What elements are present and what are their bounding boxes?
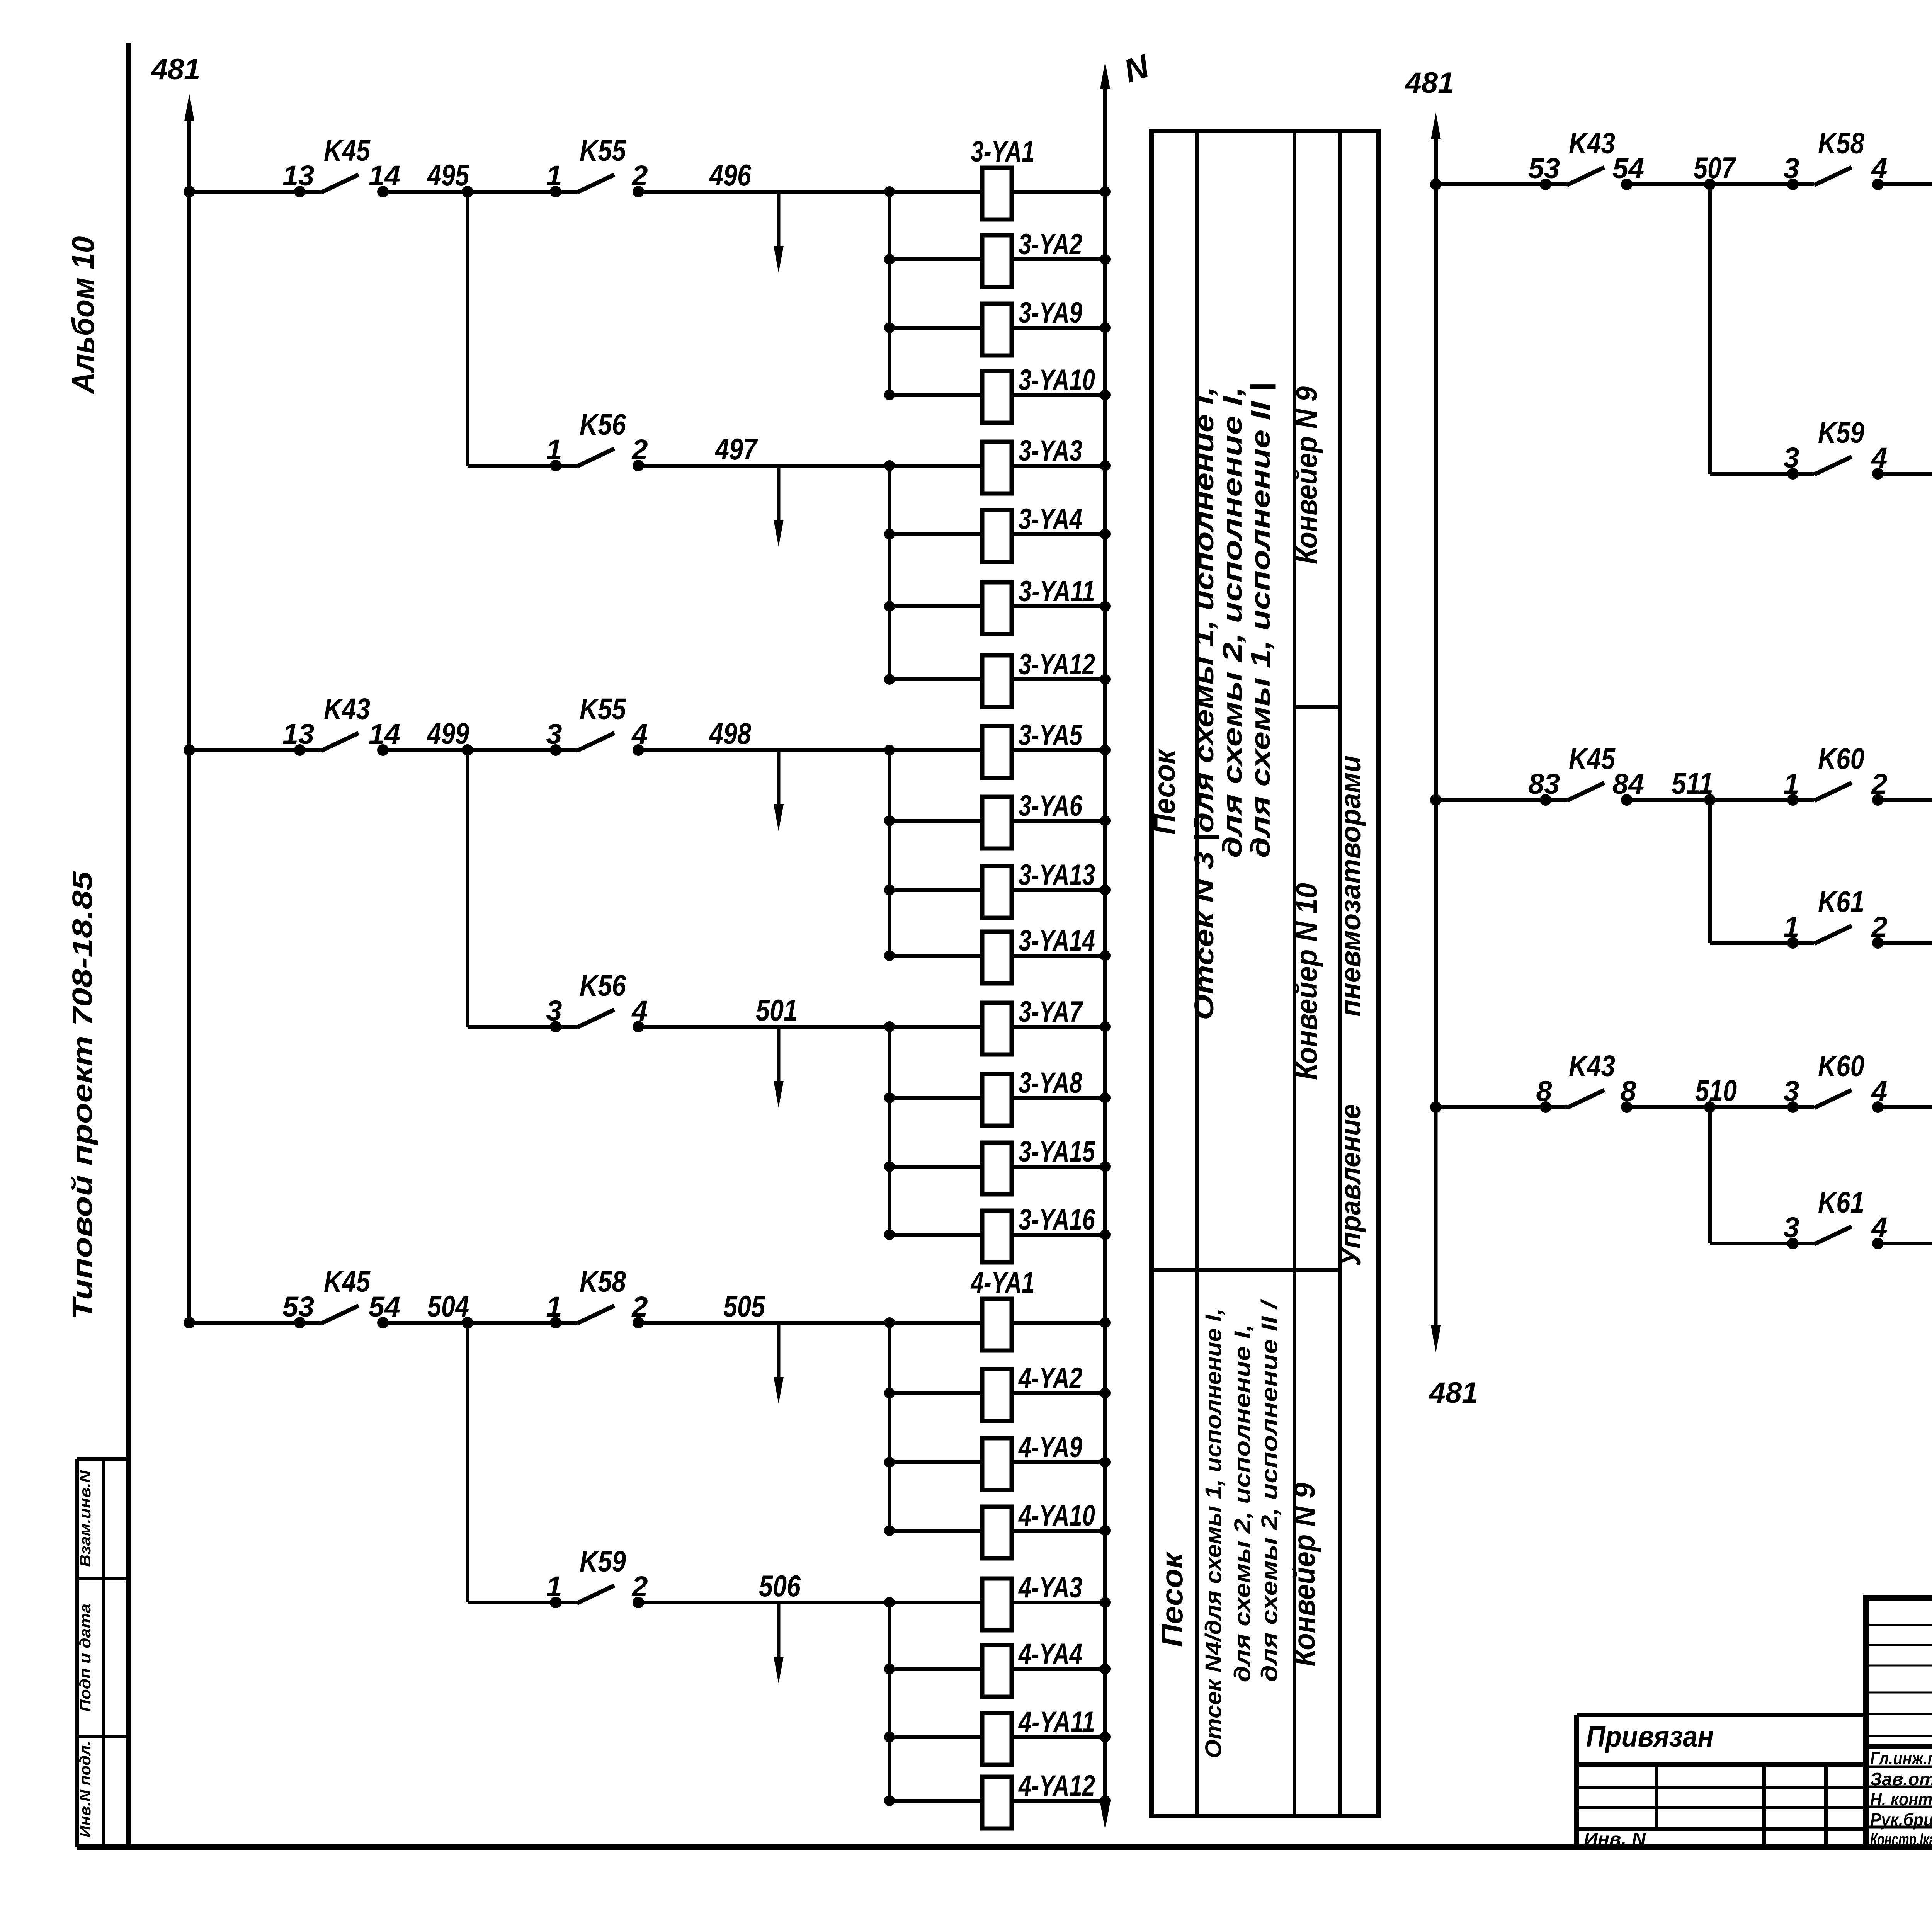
wire group bus at x2302 rows 4-YA1-4-YA10 (888, 1323, 891, 1531)
coil 3-YA13 (982, 859, 1095, 918)
svg-text:3-YA1: 3-YA1 (971, 135, 1035, 168)
contact K43 pins 53-54 (1528, 127, 1644, 190)
svg-text:8: 8 (1536, 1075, 1552, 1107)
svg-text:1: 1 (546, 434, 562, 466)
svg-text:3: 3 (546, 995, 562, 1027)
svg-text:506: 506 (759, 1569, 801, 1603)
contact K55 pins 1-2 (546, 134, 648, 197)
svg-text:Рук.бриг.: Рук.бриг. (1870, 1810, 1932, 1830)
svg-text:481: 481 (1405, 66, 1454, 99)
coil 3-YA14 (982, 924, 1095, 983)
arrow continuation under 498 (774, 752, 784, 831)
wire row 3-YA9 (884, 322, 1111, 333)
svg-text:K43: K43 (1569, 127, 1615, 160)
svg-text:K43: K43 (1569, 1050, 1615, 1083)
wire sub-rung 513 (1710, 800, 1932, 943)
svg-text:84: 84 (1612, 768, 1644, 800)
svg-text:2: 2 (1871, 768, 1887, 800)
svg-text:3: 3 (1783, 1075, 1799, 1107)
svg-text:Зав.отд: Зав.отд (1870, 1769, 1932, 1789)
svg-text:3-YA12: 3-YA12 (1019, 648, 1095, 681)
svg-text:1: 1 (546, 1570, 562, 1602)
coil 3-YA12 (982, 648, 1095, 707)
svg-text:53: 53 (1528, 152, 1560, 184)
svg-text:496: 496 (709, 158, 751, 192)
svg-text:Гл.инж.пр: Гл.инж.пр (1870, 1748, 1932, 1768)
wire row 4-YA11 (884, 1732, 1111, 1742)
arrow continuation under 497 (774, 468, 784, 547)
svg-text:54: 54 (1612, 152, 1644, 184)
contact K45 pins 53-54 (282, 1265, 400, 1328)
svg-text:4-YA12: 4-YA12 (1018, 1769, 1095, 1802)
svg-text:Типовой проект 708-18.85: Типовой проект 708-18.85 (67, 871, 98, 1320)
wire row 3-YA16 (884, 1229, 1111, 1240)
wire rung 507/508 (1430, 151, 1932, 190)
svg-text:3-YA9: 3-YA9 (1019, 296, 1082, 329)
svg-text:K58: K58 (1818, 127, 1864, 160)
svg-text:54: 54 (369, 1291, 400, 1323)
svg-text:14: 14 (369, 160, 400, 192)
svg-text:K61: K61 (1818, 1186, 1864, 1219)
svg-text:511: 511 (1672, 766, 1713, 800)
svg-text:K60: K60 (1818, 742, 1864, 776)
wire group bus at x2302 rows 4-YA3-4-YA12 (888, 1602, 891, 1801)
svg-text:K45: K45 (324, 1265, 371, 1298)
svg-text:Н. контр.: Н. контр. (1870, 1789, 1932, 1809)
contact K56 pins 3-4 (546, 969, 648, 1032)
wire rung 510/515 (1430, 1073, 1932, 1113)
coil 4-YA1 (970, 1266, 1035, 1351)
svg-text:4: 4 (631, 718, 648, 750)
wire rung 504/505 (184, 1289, 889, 1328)
svg-text:Привязан: Привязан (1586, 1720, 1714, 1753)
wire row 3-YA15 (884, 1161, 1111, 1172)
svg-text:2: 2 (631, 434, 648, 466)
node N left coil bus (1100, 48, 1154, 1830)
svg-text:Песок: Песок (1155, 1551, 1189, 1647)
svg-text:4: 4 (1871, 1075, 1887, 1107)
svg-text:1: 1 (546, 160, 562, 192)
svg-text:3-YA6: 3-YA6 (1019, 789, 1083, 822)
svg-text:495: 495 (427, 158, 469, 192)
contact K61 pins 3-4 (1783, 1186, 1887, 1249)
svg-text:3-YA8: 3-YA8 (1019, 1067, 1083, 1099)
svg-text:3-YA16: 3-YA16 (1019, 1203, 1095, 1236)
wire group bus at x2302 rows 3-YA7-3-YA16 (888, 1027, 891, 1235)
svg-text:1: 1 (1783, 911, 1799, 943)
svg-text:2: 2 (631, 160, 648, 192)
contact K60 pins 3-4 (1783, 1050, 1887, 1113)
wire row 4-YA4 (884, 1664, 1111, 1674)
svg-text:3-YA11: 3-YA11 (1019, 575, 1095, 608)
svg-text:510: 510 (1695, 1073, 1737, 1107)
wire sub-rung 509 (1710, 184, 1932, 474)
svg-text:499: 499 (427, 716, 469, 750)
coil 4-YA3 (982, 1571, 1082, 1630)
svg-text:K60: K60 (1818, 1050, 1864, 1083)
arrow continuation under 505 (774, 1325, 784, 1404)
wire row 3-YA11 (884, 601, 1111, 612)
svg-text:Конвейер N 10: Конвейер N 10 (1289, 883, 1323, 1080)
coil 4-YA11 (982, 1706, 1095, 1765)
svg-text:14: 14 (369, 718, 400, 750)
svg-text:3-YA3: 3-YA3 (1019, 434, 1082, 467)
svg-text:498: 498 (709, 716, 751, 750)
svg-text:1: 1 (1783, 768, 1799, 800)
coil 3-YA4 (982, 503, 1082, 562)
wire row 4-YA10 (884, 1525, 1111, 1536)
svg-text:4: 4 (1871, 152, 1887, 184)
contact K60 pins 1-2 (1783, 742, 1887, 806)
wire sub-rung 501 (468, 750, 889, 1027)
svg-text:для схемы 2, исполнение II /: для схемы 2, исполнение II / (1257, 1298, 1282, 1682)
contact K43 pins 8-8 (1536, 1050, 1636, 1113)
svg-text:4: 4 (631, 995, 648, 1027)
coil 3-YA7 (982, 995, 1083, 1055)
wire row 4-YA1 (884, 1317, 1111, 1328)
svg-text:3: 3 (1783, 152, 1799, 184)
svg-text:K55: K55 (580, 692, 626, 726)
svg-text:2: 2 (631, 1570, 648, 1602)
svg-text:для схемы 2, исполнение I,: для схемы 2, исполнение I, (1230, 1324, 1255, 1682)
svg-text:Управление: Управление (1335, 1104, 1366, 1266)
arrow continuation under 506 (774, 1604, 784, 1684)
svg-text:3-YA10: 3-YA10 (1019, 364, 1095, 396)
svg-text:4-YA4: 4-YA4 (1018, 1638, 1082, 1670)
margin text Типовой проект 708-18.85 (67, 871, 98, 1320)
coil 4-YA9 (982, 1431, 1082, 1490)
wire row 3-YA1 (884, 186, 1111, 197)
svg-text:Отсек N 3 |для схемы 1, ис: Отсек N 3 |для схемы 1, исполнение I, (1189, 386, 1219, 1020)
svg-text:3: 3 (1783, 442, 1799, 474)
svg-text:3-YA5: 3-YA5 (1019, 719, 1083, 752)
title block texts (1870, 1614, 1932, 1851)
coil 3-YA16 (982, 1203, 1095, 1262)
svg-text:53: 53 (282, 1291, 314, 1323)
svg-text:3: 3 (1783, 1211, 1799, 1243)
svg-text:K59: K59 (1818, 416, 1864, 449)
svg-text:3-YA15: 3-YA15 (1019, 1135, 1095, 1168)
contact K45 pins 83-84 (1528, 742, 1644, 806)
svg-text:4-YA3: 4-YA3 (1018, 1571, 1082, 1604)
svg-text:13: 13 (282, 718, 314, 750)
wire row 4-YA2 (884, 1388, 1111, 1398)
wire row 4-YA12 (884, 1795, 1111, 1806)
wire sub-rung 497 (468, 192, 889, 466)
svg-text:4: 4 (1871, 1211, 1887, 1243)
coil 4-YA10 (982, 1499, 1095, 1558)
svg-text:K58: K58 (580, 1265, 626, 1298)
svg-text:для схемы 2, исполнение I,: для схемы 2, исполнение I, (1217, 386, 1247, 858)
wire sub-rung 506 (468, 1323, 889, 1603)
svg-text:Альбом 10: Альбом 10 (66, 236, 101, 395)
svg-text:Конвейер N 9: Конвейер N 9 (1287, 1483, 1321, 1667)
coil 3-YA15 (982, 1135, 1095, 1194)
svg-text:505: 505 (723, 1289, 765, 1323)
wire row 3-YA13 (884, 885, 1111, 895)
contact K58 pins 1-2 (546, 1265, 648, 1328)
bus 481 left (151, 53, 201, 1323)
svg-text:для схемы 1, исполнение II |: для схемы 1, исполнение II | (1245, 383, 1276, 858)
svg-text:504: 504 (427, 1289, 469, 1323)
svg-text:507: 507 (1694, 151, 1736, 185)
svg-text:K56: K56 (580, 408, 626, 441)
wire row 3-YA14 (884, 950, 1111, 961)
bottom-left stamp table (77, 1459, 128, 1847)
svg-text:4: 4 (1871, 442, 1887, 474)
svg-text:1: 1 (546, 1291, 562, 1323)
svg-text:Инв. N: Инв. N (1584, 1829, 1646, 1849)
wire row 3-YA4 (884, 529, 1111, 539)
svg-text:K61: K61 (1818, 885, 1864, 919)
svg-text:501: 501 (756, 993, 798, 1027)
arrow continuation under 496 (774, 194, 784, 273)
svg-text:3-YA13: 3-YA13 (1019, 859, 1095, 891)
svg-text:Взам.инв.N: Взам.инв.N (77, 1470, 94, 1567)
wire rung 511/512 (1430, 766, 1932, 806)
wire group bus at x2302 rows 3-YA5-3-YA14 (888, 750, 891, 956)
svg-text:481: 481 (1429, 1376, 1478, 1409)
coil 3-YA11 (982, 575, 1095, 634)
contact K59 pins 1-2 (546, 1545, 648, 1608)
svg-text:4-YA11: 4-YA11 (1018, 1706, 1095, 1738)
wire row 3-YA8 (884, 1092, 1111, 1103)
svg-text:K45: K45 (1569, 742, 1616, 776)
title block (1866, 1598, 1932, 1847)
wire row 4-YA9 (884, 1457, 1111, 1468)
svg-text:пневмозатворами: пневмозатворами (1335, 755, 1366, 1017)
coil 4-YA12 (982, 1769, 1095, 1829)
svg-text:3-YA14: 3-YA14 (1019, 924, 1095, 957)
wire row 3-YA2 (884, 254, 1111, 265)
coil 3-YA2 (982, 228, 1082, 287)
wire row 3-YA3 (884, 460, 1111, 471)
coil 3-YA5 (982, 719, 1083, 778)
wire group bus at x2302 rows 3-YA3-3-YA12 (888, 466, 891, 679)
svg-text:497: 497 (714, 432, 758, 466)
contact K43 pins 13-14 (282, 692, 400, 756)
contact K55 pins 3-4 (546, 692, 648, 756)
svg-text:13: 13 (282, 160, 314, 192)
middle legend table (1151, 131, 1379, 1816)
svg-text:4-YA9: 4-YA9 (1018, 1431, 1082, 1464)
wire rung 495/496 (184, 158, 889, 197)
coil 3-YA6 (982, 789, 1083, 849)
wire row 3-YA7 (884, 1021, 1111, 1032)
coil 3-YA3 (982, 434, 1082, 493)
wire group bus at x2302 rows 3-YA1-3-YA10 (888, 192, 891, 395)
wire row 3-YA12 (884, 674, 1111, 685)
svg-text:3-YA4: 3-YA4 (1019, 503, 1082, 536)
coil 3-YA10 (982, 364, 1095, 423)
svg-text:K56: K56 (580, 969, 626, 1002)
svg-text:3-YA7: 3-YA7 (1019, 995, 1083, 1028)
svg-text:4-YA1: 4-YA1 (970, 1266, 1035, 1299)
svg-text:2: 2 (1871, 911, 1887, 943)
svg-text:Песок: Песок (1147, 748, 1181, 835)
svg-text:K59: K59 (580, 1545, 626, 1578)
contact K45 pins 13-14 (282, 134, 400, 197)
wire row 3-YA5 (884, 745, 1111, 755)
wire row 3-YA10 (884, 390, 1111, 400)
svg-text:4-YA10: 4-YA10 (1018, 1499, 1095, 1532)
coil 4-YA4 (982, 1638, 1082, 1697)
svg-text:83: 83 (1528, 768, 1560, 800)
svg-text:3: 3 (546, 718, 562, 750)
svg-text:K55: K55 (580, 134, 626, 167)
svg-text:Отсек N4/для схемы 1, исполнен: Отсек N4/для схемы 1, исполнение I, (1201, 1308, 1226, 1759)
coil 4-YA2 (982, 1362, 1082, 1421)
wire row 4-YA3 (884, 1597, 1111, 1608)
contact K61 pins 1-2 (1783, 885, 1887, 949)
coil 3-YA9 (982, 296, 1082, 356)
contact K58 pins 3-4 (1783, 127, 1887, 190)
contact K56 pins 1-2 (546, 408, 648, 471)
table Привязан (1577, 1715, 1866, 1849)
svg-text:2: 2 (631, 1291, 648, 1323)
svg-text:Подп и дата: Подп и дата (77, 1604, 94, 1712)
svg-text:4-YA2: 4-YA2 (1018, 1362, 1082, 1395)
svg-text:Констр.Iкат: Констр.Iкат (1870, 1829, 1932, 1849)
svg-text:K43: K43 (324, 692, 370, 726)
contact K59 pins 3-4 (1783, 416, 1887, 480)
middle table texts (1147, 383, 1366, 1759)
wire rung 499/498 (184, 716, 889, 756)
svg-text:481: 481 (151, 53, 201, 86)
margin text Альбом 10 (66, 236, 101, 395)
wire row 3-YA6 (884, 815, 1111, 826)
svg-text:Конвейер N 9: Конвейер N 9 (1289, 386, 1323, 564)
coil 3-YA8 (982, 1067, 1083, 1126)
wire sub-rung 516 (1710, 1107, 1932, 1244)
svg-text:8: 8 (1620, 1075, 1636, 1107)
svg-text:K45: K45 (324, 134, 371, 167)
arrow continuation under 501 (774, 1029, 784, 1108)
bus 481 right (1405, 66, 1478, 1409)
svg-text:3-YA2: 3-YA2 (1019, 228, 1082, 261)
svg-text:Инв.N подл.: Инв.N подл. (77, 1741, 94, 1837)
coil 3-YA1 (971, 135, 1035, 219)
